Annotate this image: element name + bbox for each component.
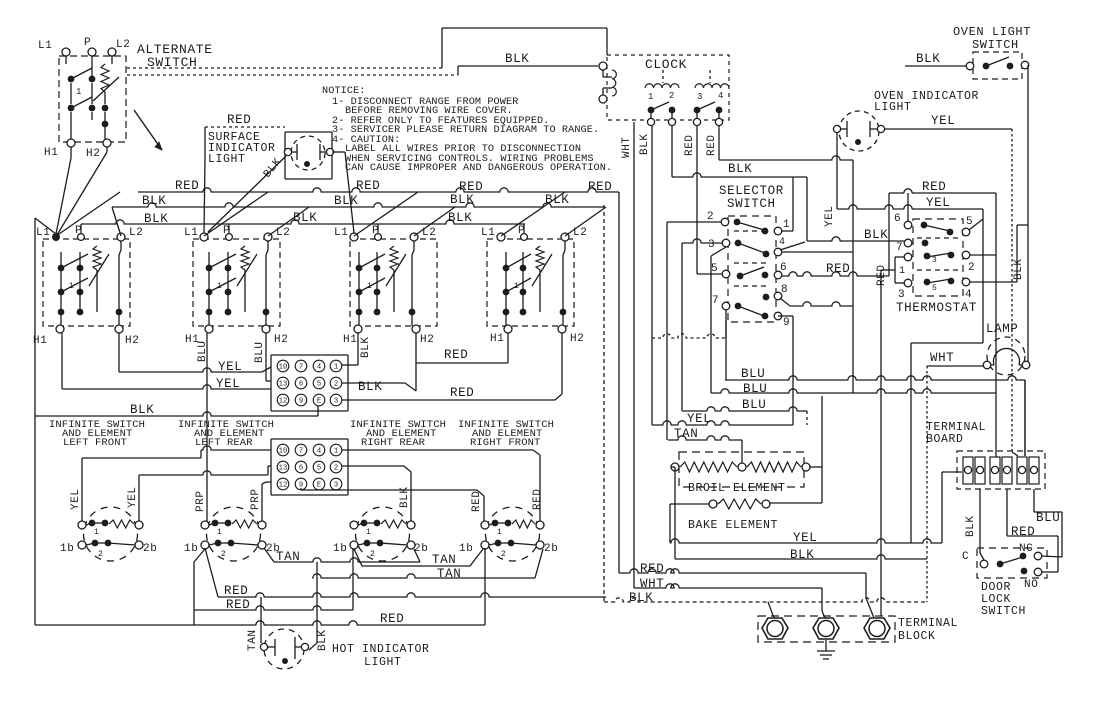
unit2 P stub to BLK bus2	[228, 224, 230, 233]
svg-text:TERMINAL: TERMINAL	[898, 617, 958, 630]
svg-text:TAN: TAN	[437, 567, 461, 581]
svg-text:BLK: BLK	[1013, 258, 1025, 280]
svg-text:BLU: BLU	[1036, 511, 1060, 525]
svg-text:2: 2	[968, 262, 975, 274]
svg-text:1b: 1b	[333, 543, 347, 555]
surface element 4	[486, 507, 540, 561]
surface indicator light	[285, 131, 332, 133]
svg-text:BLU: BLU	[742, 398, 766, 412]
wire BLK bus 1	[112, 203, 604, 207]
svg-text:6: 6	[780, 262, 787, 274]
wire to selector 5	[697, 273, 722, 275]
selector terminals left	[721, 218, 729, 226]
wire BLK oven run	[675, 555, 927, 559]
svg-text:RED: RED	[684, 134, 696, 156]
svg-text:6: 6	[299, 465, 303, 473]
wire selector 6 RED right	[782, 272, 889, 276]
wire WHT to lamp	[927, 365, 983, 367]
wire RED down to thermostat 2	[995, 193, 997, 457]
surface element 2	[207, 507, 261, 561]
wire down to clock	[606, 28, 608, 55]
wire WHT main run bottom	[634, 584, 822, 588]
wire RED unit3-H2 to unit4-H1	[415, 333, 417, 363]
svg-text:4: 4	[317, 448, 321, 456]
svg-text:2b: 2b	[544, 543, 558, 555]
alternate switch contacts	[68, 76, 75, 83]
svg-text:2: 2	[370, 550, 375, 559]
svg-text:L1: L1	[481, 227, 495, 239]
svg-text:2: 2	[98, 550, 103, 559]
wire top horizontal	[442, 27, 607, 29]
wire clock-4 RED down right	[718, 126, 720, 160]
svg-text:RED: RED	[640, 562, 664, 576]
ground symbol	[825, 640, 827, 651]
wire YEL from oven indicator right	[885, 128, 1012, 130]
unit2 resistor	[241, 246, 249, 270]
svg-text:TAN: TAN	[432, 553, 456, 567]
connector block 2 (element harness)	[271, 438, 348, 440]
unit2 contacts	[208, 252, 210, 312]
svg-text:RED: RED	[471, 490, 483, 512]
svg-text:YEL: YEL	[216, 377, 240, 391]
svg-text:SELECTOR: SELECTOR	[719, 184, 784, 198]
svg-text:3: 3	[334, 482, 338, 490]
clock coil 1-2	[645, 84, 679, 88]
svg-text:1b: 1b	[459, 543, 473, 555]
wire BLU 1 run	[725, 376, 1025, 380]
svg-text:1: 1	[899, 266, 906, 277]
svg-text:WHT: WHT	[930, 351, 954, 365]
svg-text:2: 2	[334, 465, 338, 473]
svg-text:BLU: BLU	[254, 341, 266, 363]
svg-text:RED: RED	[450, 386, 474, 400]
svg-text:7: 7	[299, 364, 303, 372]
unit4 H contacts	[562, 255, 564, 326]
svg-text:HOT INDICATOR: HOT INDICATOR	[332, 643, 430, 656]
svg-text:BLK: BLK	[144, 212, 168, 226]
svg-text:2: 2	[501, 550, 506, 559]
svg-text:YEL: YEL	[793, 531, 817, 545]
unit2 H1 H2	[205, 325, 213, 333]
svg-text:L1: L1	[38, 40, 52, 52]
wire to selector 2	[667, 221, 721, 223]
unit3 H1 H2	[354, 325, 362, 333]
svg-text:LEFT FRONT: LEFT FRONT	[63, 437, 127, 449]
svg-text:E: E	[317, 398, 321, 406]
svg-text:3: 3	[708, 239, 715, 251]
unit1 blade L2 to BLK bus	[112, 207, 121, 236]
svg-text:5: 5	[317, 465, 321, 473]
wire BLU terminal board to NC	[1033, 489, 1035, 512]
hot indicator light	[264, 629, 304, 669]
infinite switch unit 2 box	[193, 239, 280, 326]
svg-text:5: 5	[711, 263, 718, 275]
wire RED elements run 1	[205, 548, 218, 597]
wire BLK diag from surface light to unit2	[204, 160, 205, 233]
svg-text:BLK: BLK	[450, 193, 474, 207]
svg-text:PRP: PRP	[195, 490, 207, 512]
svg-text:BLU: BLU	[743, 382, 767, 396]
svg-text:BLK: BLK	[965, 515, 977, 537]
wire connector E down	[317, 404, 319, 416]
unit3 blade L2 to BLK bus	[414, 207, 455, 236]
svg-text:4: 4	[718, 91, 724, 101]
svg-text:BLOCK: BLOCK	[898, 630, 936, 643]
svg-text:BLK: BLK	[293, 211, 317, 225]
wire TAN run	[668, 436, 742, 440]
unit1 contacts	[60, 252, 62, 312]
unit3 blade L1 to RED bus	[354, 192, 418, 236]
wire connector2-1 to element4 right	[342, 449, 533, 451]
svg-text:RED: RED	[175, 179, 199, 193]
svg-text:BLK: BLK	[358, 380, 382, 394]
svg-text:1: 1	[648, 92, 654, 102]
svg-text:CLOCK: CLOCK	[645, 57, 687, 72]
wire YEL to thermostat	[837, 205, 983, 209]
unit3 resistor	[390, 246, 398, 270]
alternate switch resistor	[101, 64, 109, 92]
wire selector 8 down right	[780, 298, 790, 306]
wire into pair3	[1012, 452, 1018, 456]
wire YEL run	[652, 421, 793, 425]
svg-text:L1: L1	[334, 227, 348, 239]
wire from oven indicator left down	[836, 133, 838, 209]
svg-text:SWITCH: SWITCH	[972, 38, 1019, 52]
wire thermostat 5 right	[969, 219, 983, 230]
svg-text:1: 1	[76, 87, 82, 97]
svg-text:1: 1	[514, 282, 519, 291]
svg-text:YEL: YEL	[824, 205, 836, 227]
wire element1 left to connector2-10	[81, 458, 83, 521]
wire connector2-9 to element4 left	[300, 488, 302, 490]
svg-text:THERMOSTAT: THERMOSTAT	[896, 301, 977, 315]
infinite switch unit 3 box	[350, 239, 437, 326]
unit4 resistor	[536, 246, 544, 270]
wire element2 right to connector2-12	[261, 484, 263, 521]
svg-text:2: 2	[221, 550, 226, 559]
svg-text:BLK: BLK	[360, 336, 372, 358]
selector blades	[737, 222, 764, 230]
wire connector2-2 to element3 right	[342, 465, 404, 467]
clock coil 3-4	[695, 84, 729, 88]
unit2 H contacts	[265, 255, 267, 326]
svg-text:E: E	[317, 482, 321, 490]
svg-text:7: 7	[712, 295, 719, 307]
svg-text:RED: RED	[380, 612, 404, 626]
wire selector bottom to BLU1	[725, 320, 727, 380]
svg-text:BLK: BLK	[130, 403, 154, 417]
svg-text:SWITCH: SWITCH	[727, 197, 776, 211]
unit1 H1 H2	[56, 325, 64, 333]
svg-text:9: 9	[299, 398, 303, 406]
svg-text:2: 2	[707, 211, 714, 223]
arrow pointing from switch	[134, 110, 162, 150]
svg-text:7: 7	[299, 448, 303, 456]
svg-text:PRP: PRP	[250, 488, 262, 510]
svg-text:3: 3	[932, 256, 937, 265]
wire top corner up	[441, 28, 443, 68]
svg-text:NOTICE:: NOTICE:	[322, 86, 366, 97]
unit1 H contacts	[118, 255, 120, 326]
wire element1 right to connector2-13	[138, 475, 140, 521]
svg-text:H2: H2	[274, 334, 288, 346]
svg-text:BLK: BLK	[639, 133, 651, 155]
wire RED top right	[889, 189, 996, 193]
svg-text:4: 4	[965, 289, 972, 301]
svg-text:BLU: BLU	[741, 367, 765, 381]
wire RED main run bottom	[619, 569, 866, 573]
wire dashed selector bottom	[652, 334, 726, 338]
unit3 H contacts	[411, 255, 413, 326]
svg-text:BROIL ELEMENT: BROIL ELEMENT	[688, 482, 786, 495]
svg-text:BOARD: BOARD	[926, 433, 964, 446]
svg-text:H2: H2	[125, 335, 139, 347]
unit1 P stub to BLK bus2	[80, 224, 82, 233]
svg-text:3: 3	[697, 92, 703, 102]
wire YEL right vertical	[982, 209, 984, 343]
svg-text:LIGHT: LIGHT	[208, 153, 246, 166]
selector terminals right	[762, 228, 769, 235]
wire alternate switch lower dashed	[127, 74, 458, 76]
svg-text:BLK: BLK	[505, 52, 529, 66]
svg-text:BLK: BLK	[142, 194, 166, 208]
svg-text:L2: L2	[129, 227, 143, 239]
svg-text:1: 1	[497, 528, 502, 537]
svg-text:RIGHT REAR: RIGHT REAR	[361, 437, 426, 449]
wire from surface light right to unit3	[332, 151, 345, 153]
wire clock-3 RED down to selector 5	[696, 126, 698, 274]
wire dashed from alternate switch right to top bus	[127, 67, 442, 69]
unit3 P stub to BLK bus2	[377, 224, 379, 233]
svg-text:BLK: BLK	[334, 194, 358, 208]
svg-text:13: 13	[279, 465, 288, 473]
wire selector 3 branch down	[711, 247, 726, 256]
wire selector 1 up	[782, 230, 793, 232]
svg-text:BLU: BLU	[197, 340, 209, 362]
wire BLU unit2-H2 to connector	[265, 333, 267, 381]
wire thermostat 4 right to BLK vertical	[970, 281, 1017, 283]
svg-text:BLK: BLK	[864, 228, 888, 242]
svg-text:1: 1	[69, 282, 74, 291]
svg-text:1: 1	[783, 219, 790, 231]
wire to element3 1b	[194, 606, 353, 610]
wire BLK dashed main run bottom	[604, 598, 927, 602]
wire BLK bus 2	[81, 220, 525, 224]
svg-text:RED: RED	[224, 584, 248, 598]
wire RED long bottom	[35, 621, 485, 625]
svg-text:YEL: YEL	[687, 412, 711, 426]
svg-text:YEL: YEL	[931, 114, 955, 128]
svg-text:9: 9	[783, 317, 790, 329]
wire unit3-H1 to connector 1	[357, 333, 359, 365]
svg-text:1: 1	[367, 282, 372, 291]
svg-text:RED: RED	[356, 179, 380, 193]
svg-text:5: 5	[317, 381, 321, 389]
svg-text:1: 1	[334, 364, 338, 372]
svg-text:12: 12	[279, 482, 288, 490]
svg-text:H1: H1	[44, 147, 58, 159]
wire connector 2 to junction	[342, 382, 405, 384]
svg-text:LIGHT: LIGHT	[874, 101, 912, 114]
unit4 P stub to BLK bus2	[523, 224, 525, 233]
wire RED bus	[138, 188, 619, 192]
svg-text:TAN: TAN	[276, 550, 300, 564]
svg-text:RED: RED	[459, 180, 483, 194]
wire YEL oven run	[670, 539, 942, 543]
wire selector 4 to BLK vertical	[780, 242, 805, 250]
wire to selector 3	[682, 239, 722, 243]
svg-text:LIGHT: LIGHT	[364, 656, 402, 669]
svg-text:YEL: YEL	[127, 486, 139, 508]
svg-text:RED: RED	[826, 262, 850, 276]
svg-text:BLK: BLK	[728, 162, 752, 176]
surface element 3	[356, 507, 410, 561]
infinite switch unit 4 box	[487, 239, 574, 326]
broil element	[679, 452, 804, 487]
thermostat	[913, 219, 963, 296]
terminal block	[758, 616, 895, 642]
unit3 contacts	[358, 252, 360, 312]
svg-text:10: 10	[279, 364, 288, 372]
svg-text:5: 5	[932, 284, 937, 293]
svg-text:2b: 2b	[143, 543, 157, 555]
wire YEL unit1-H2 to connector	[118, 333, 120, 372]
svg-text:H2: H2	[420, 334, 434, 346]
svg-text:1: 1	[366, 528, 371, 537]
svg-text:5: 5	[966, 216, 973, 228]
svg-text:BLK: BLK	[790, 548, 814, 562]
svg-text:3: 3	[898, 289, 905, 301]
unit2 blade L2 to BLK bus	[268, 207, 309, 236]
wire H1 to L1 junction	[70, 147, 72, 158]
unit1 resistor	[93, 246, 101, 270]
svg-text:BLK: BLK	[317, 629, 329, 651]
svg-text:BLK: BLK	[629, 591, 653, 605]
svg-text:1: 1	[217, 282, 222, 291]
unit4 blade L1 to RED bus	[501, 192, 565, 236]
wire TAN elements run 2	[354, 549, 362, 566]
svg-text:NO: NO	[1024, 579, 1038, 591]
svg-text:1b: 1b	[60, 543, 74, 555]
alternate switch H1 H2	[67, 139, 75, 147]
wire BLU 2 run	[711, 389, 996, 393]
svg-text:3: 3	[334, 398, 338, 406]
svg-text:6: 6	[894, 213, 901, 225]
svg-text:2: 2	[334, 381, 338, 389]
svg-text:L2: L2	[116, 39, 130, 51]
svg-text:TAN: TAN	[674, 427, 698, 441]
unit4 contacts	[505, 252, 507, 312]
wire YEL unit1-H1 to connector	[61, 333, 63, 389]
svg-text:H1: H1	[490, 333, 504, 345]
svg-text:LAMP: LAMP	[986, 322, 1018, 336]
wire clock-2 down then BLK right	[671, 126, 673, 177]
svg-text:YEL: YEL	[70, 488, 82, 510]
svg-text:13: 13	[279, 381, 288, 389]
svg-text:RED: RED	[706, 134, 718, 156]
svg-text:12: 12	[279, 398, 288, 406]
svg-text:YEL: YEL	[926, 196, 950, 210]
bake element	[709, 500, 717, 508]
wire BLU 3 run	[682, 407, 807, 411]
wire left border L1 feed	[34, 218, 36, 625]
wire TAN to hot light	[260, 597, 262, 643]
wire thermostat 6 up to RED	[907, 193, 909, 221]
svg-text:H2: H2	[570, 333, 584, 345]
wire TAN elements run 1	[264, 548, 274, 562]
surface element 1	[84, 507, 138, 561]
wire TAN elements run 3	[312, 574, 535, 578]
wire selector 4 right	[782, 251, 853, 253]
svg-text:8: 8	[781, 284, 788, 296]
svg-text:6: 6	[299, 381, 303, 389]
svg-text:RED: RED	[1011, 525, 1035, 539]
wire BLK to clock solenoid	[457, 66, 459, 75]
wire H2 to L1 junction	[106, 147, 108, 152]
svg-text:4: 4	[317, 364, 321, 372]
wire broil left to BLK	[671, 466, 675, 468]
wire BLK from hot light	[316, 562, 318, 643]
svg-text:H2: H2	[86, 148, 100, 160]
svg-text:7: 7	[896, 242, 903, 254]
svg-text:WHT: WHT	[640, 577, 664, 591]
svg-text:RED: RED	[588, 180, 612, 194]
wire BLK clock-1 down (long)	[651, 126, 653, 425]
svg-text:SWITCH: SWITCH	[981, 605, 1026, 618]
wire BLU unit2-H1 down to element2	[206, 333, 208, 525]
wire right trunk from oven light switch	[1027, 65, 1029, 365]
svg-text:1: 1	[217, 528, 222, 537]
svg-text:1: 1	[334, 448, 338, 456]
wire WHT from clock down	[633, 122, 635, 588]
wire BLK terminal board to door lock C	[979, 489, 981, 553]
svg-text:RED: RED	[444, 348, 468, 362]
svg-text:YEL: YEL	[218, 360, 242, 374]
svg-text:L1: L1	[184, 227, 198, 239]
wire thermostat left bracket	[895, 256, 904, 258]
svg-text:BLK: BLK	[545, 193, 569, 207]
unit1 blade L1 to RED bus	[56, 192, 120, 236]
svg-text:4: 4	[779, 237, 786, 248]
svg-text:C: C	[962, 551, 969, 563]
wire broil right to bake right	[810, 466, 822, 468]
unit4 H1 H2	[504, 325, 512, 333]
svg-text:10: 10	[279, 448, 288, 456]
svg-text:OVEN LIGHT: OVEN LIGHT	[953, 25, 1031, 39]
clock solenoid	[599, 62, 607, 70]
svg-text:BLK: BLK	[448, 211, 472, 225]
unit2 blade L1 to RED bus	[204, 192, 268, 236]
wire connector 3 to unit4-H2	[342, 399, 555, 401]
svg-text:RED: RED	[922, 180, 946, 194]
svg-text:BAKE ELEMENT: BAKE ELEMENT	[688, 519, 778, 532]
svg-text:P: P	[84, 37, 91, 49]
wire BLK long bottom of switches	[35, 412, 318, 416]
svg-text:H1: H1	[343, 334, 357, 346]
svg-text:RIGHT FRONT: RIGHT FRONT	[470, 437, 540, 449]
svg-text:WHT: WHT	[621, 136, 633, 158]
unit4 blade L2 to BLK bus	[565, 207, 606, 236]
svg-text:RED: RED	[876, 264, 888, 286]
clock box	[607, 55, 729, 120]
svg-text:TAN: TAN	[247, 629, 259, 651]
infinite switch unit 1 box	[43, 239, 130, 326]
svg-text:CAN CAUSE IMPROPER AND DANGERO: CAN CAUSE IMPROPER AND DANGEROUS OPERATI…	[345, 163, 612, 174]
wire bake left bracket to YEL	[670, 503, 709, 505]
svg-text:RED: RED	[227, 113, 251, 127]
svg-text:2: 2	[669, 91, 675, 101]
wire RED terminal board to NO	[1006, 489, 1008, 536]
